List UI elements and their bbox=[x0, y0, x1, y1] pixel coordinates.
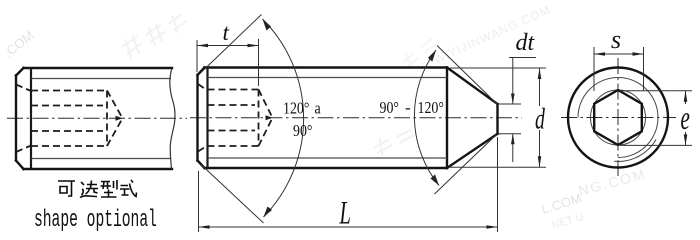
选 bbox=[80, 181, 98, 198]
left view hex socket hidden lines bbox=[16, 85, 123, 153]
svg-text:NET U: NET U bbox=[550, 211, 585, 232]
socket angle rays (90 deg option) bbox=[201, 15, 264, 224]
watermark CJK ghost top-middle bbox=[118, 11, 192, 59]
svg-text:NG.COM: NG.COM bbox=[577, 165, 648, 198]
main socket cone apex tick bbox=[266, 115, 273, 120]
point angle arc bbox=[414, 50, 439, 186]
svg-text:shape optional: shape optional bbox=[34, 205, 157, 233]
watermark bottom-right bbox=[539, 165, 647, 231]
label 可选型式 (drawn strokes) bbox=[58, 180, 137, 198]
svg-text:90°: 90° bbox=[380, 99, 400, 118]
可 bbox=[58, 181, 75, 196]
svg-text:90°: 90° bbox=[293, 122, 313, 141]
cone point outline bbox=[447, 68, 498, 169]
型 bbox=[101, 180, 118, 197]
main centerline bbox=[190, 117, 522, 119]
dimension e bbox=[620, 91, 692, 146]
left view centerline bbox=[7, 117, 187, 119]
svg-text:t: t bbox=[223, 20, 230, 45]
hex socket bbox=[594, 90, 642, 145]
left view thread root lines bbox=[31, 79, 171, 159]
式 bbox=[120, 180, 137, 197]
svg-text:.COM: .COM bbox=[1, 28, 37, 61]
left view body outline bbox=[16, 68, 172, 169]
svg-text:L: L bbox=[339, 195, 351, 231]
dimension t bbox=[197, 39, 259, 86]
outer circle (major dia) bbox=[568, 68, 668, 168]
svg-text:120°: 120° bbox=[418, 99, 444, 118]
end view centerlines bbox=[561, 117, 676, 119]
svg-text:d: d bbox=[535, 103, 545, 136]
left view break line bbox=[170, 68, 175, 169]
socket angle arc bbox=[263, 19, 304, 217]
svg-text:dt: dt bbox=[516, 30, 536, 56]
watermark ghost mid body bbox=[372, 129, 417, 157]
svg-text:e: e bbox=[681, 100, 690, 137]
watermark ghost near cone bbox=[399, 38, 442, 72]
left view chamfer inner edge bbox=[30, 68, 32, 169]
thread arc tail bbox=[614, 140, 656, 162]
svg-text:s: s bbox=[611, 25, 621, 54]
main thread root lines bbox=[208, 78, 448, 159]
left view socket cone apex tick bbox=[116, 116, 123, 121]
hex circumscribed circle bbox=[591, 90, 646, 145]
watermark .COM top-left bbox=[1, 28, 37, 61]
main hex socket hidden lines bbox=[198, 84, 273, 152]
dimension dt bbox=[499, 58, 536, 163]
thread root arc (3/4) bbox=[578, 78, 658, 158]
dimension s bbox=[594, 47, 644, 91]
dimension d bbox=[450, 68, 546, 167]
point angle rays bbox=[435, 46, 498, 195]
main chamfer inner edge bbox=[206, 68, 208, 169]
svg-text:120°: 120° bbox=[283, 99, 309, 118]
main body outline bbox=[198, 68, 448, 169]
dimension L bbox=[199, 137, 498, 232]
svg-text:-: - bbox=[405, 98, 411, 117]
svg-text:a: a bbox=[315, 99, 321, 118]
